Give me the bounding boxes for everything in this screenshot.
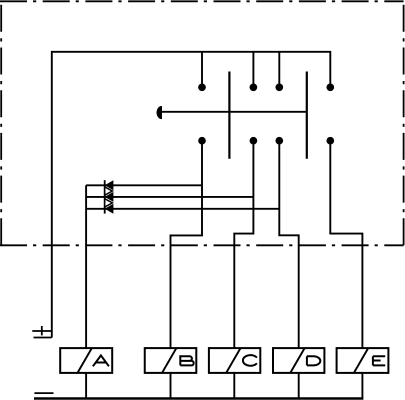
contact dot: lower contact 1 bbox=[198, 137, 206, 145]
relay coil E box bbox=[337, 348, 389, 373]
contact dot: lower contact 2 bbox=[250, 137, 258, 145]
switch pole bridge bar 2 bbox=[306, 72, 308, 159]
wire: coil D to minus bus bbox=[298, 373, 300, 399]
coil D slash bbox=[290, 348, 304, 373]
coil A slash bbox=[78, 348, 92, 373]
ratchet pawl right 1 (open) bbox=[105, 187, 113, 195]
linkage line 2 bbox=[86, 196, 253, 198]
actuator link rod bbox=[161, 111, 307, 113]
contact dot: lower contact 3 bbox=[275, 137, 283, 145]
enclosure boundary (dash-dot) bottom edge bbox=[0, 244, 404, 246]
wire: stub to upper contact 2 bbox=[252, 52, 254, 88]
wire: positive supply riser and top distribution bus bbox=[52, 52, 331, 338]
terminal + (positive supply) bbox=[32, 326, 52, 338]
wire: coil A to minus bus bbox=[85, 373, 87, 399]
linkage line 1 bbox=[86, 184, 202, 186]
ratchet arrow left 3 bbox=[105, 204, 114, 214]
relay coil B box bbox=[145, 348, 197, 373]
relay coil A box bbox=[60, 348, 112, 373]
relay coil D box bbox=[273, 348, 324, 373]
switch pole bridge bar 1 bbox=[228, 72, 230, 159]
wire: lower contact 3 to coil D bbox=[279, 141, 298, 348]
coil B label bbox=[180, 356, 193, 365]
coil B slash bbox=[162, 348, 176, 373]
coil A label bbox=[93, 355, 109, 366]
coil C slash bbox=[226, 348, 240, 373]
contact dot: upper contact 1 bbox=[198, 83, 206, 91]
contact dot: upper contact 2 bbox=[250, 83, 258, 91]
enclosure boundary (dash-dot) top edge bbox=[0, 0, 404, 2]
enclosure boundary (dash-dot) left edge bbox=[0, 0, 2, 245]
wire: stub to upper contact 1 bbox=[201, 52, 203, 88]
relay coil C box bbox=[209, 348, 260, 373]
coil E label bbox=[373, 356, 385, 365]
ratchet arrow left 1 bbox=[105, 180, 114, 190]
coil D label bbox=[307, 356, 320, 365]
stepping-mechanism ratchet bar bbox=[104, 180, 106, 213]
minus supply bus bbox=[34, 397, 363, 399]
ratchet pawl right 2 (open) bbox=[105, 199, 113, 207]
wire: linkage to coil A bbox=[85, 185, 87, 348]
wire: coil C to minus bus bbox=[233, 373, 235, 399]
wire: stub to upper contact 3 bbox=[278, 52, 280, 88]
wire: lower contact 2 to coil C bbox=[234, 141, 253, 348]
terminal - (negative supply) bbox=[34, 392, 53, 394]
wire: coil B to minus bus bbox=[170, 373, 172, 399]
wire: lower contact 4 to coil E bbox=[330, 141, 362, 348]
manual actuator knob (half disc) bbox=[157, 106, 162, 118]
contact dot: upper contact 4 bbox=[326, 83, 334, 91]
enclosure boundary (dash-dot) right edge bbox=[403, 2, 405, 245]
ratchet arrow left 2 bbox=[105, 192, 114, 202]
wire: coil E to minus bus bbox=[361, 373, 363, 399]
contact dot: lower contact 4 bbox=[326, 137, 334, 145]
contact dot: upper contact 3 bbox=[275, 83, 283, 91]
wire: lower contact 1 to coil B bbox=[171, 141, 203, 348]
coil C label bbox=[243, 355, 257, 366]
linkage line 3 bbox=[86, 208, 279, 210]
coil E slash bbox=[354, 348, 368, 373]
